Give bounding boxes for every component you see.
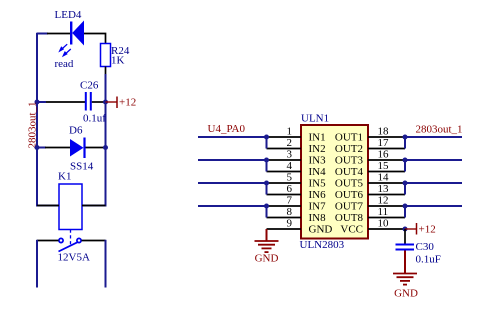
svg-text:1K: 1K: [111, 55, 125, 67]
wire D6 cathode lead: [86, 147, 106, 149]
junction dot pin10: [403, 227, 408, 232]
svg-text:SS14: SS14: [70, 161, 94, 173]
junction dot pin14: [403, 181, 408, 186]
svg-text:15: 15: [378, 160, 390, 172]
pin stub wires right (pins 18-10): [368, 137, 405, 229]
svg-text:18: 18: [378, 126, 390, 138]
wire resistor bottom lead: [105, 67, 107, 76]
pin labels right column: [335, 132, 364, 236]
relay K1 switch contact right: [77, 238, 81, 242]
LED light arrow 1: [58, 44, 67, 52]
junction dot pin18: [403, 135, 408, 140]
wire C26 left lead: [37, 101, 85, 103]
pin labels left column: [309, 132, 333, 236]
svg-text:0.1uf: 0.1uf: [83, 113, 106, 125]
svg-text:IN3: IN3: [309, 155, 327, 167]
svg-text:7: 7: [287, 195, 293, 207]
svg-text:3: 3: [287, 149, 293, 161]
svg-text:1: 1: [287, 126, 293, 138]
wire pin10 stub: [368, 228, 405, 230]
svg-text:5: 5: [287, 172, 293, 184]
junction dot pin1: [264, 135, 269, 140]
junction dot D6 left: [35, 145, 40, 150]
wire pin2 stub: [267, 148, 302, 150]
wire pin10 to C30: [404, 229, 406, 244]
IC ULN1 ULN2803 body: [301, 125, 368, 239]
wire pair 1-2 vertical: [266, 137, 268, 149]
junction dot pin16: [403, 158, 408, 163]
svg-text:+12: +12: [419, 224, 436, 236]
svg-text:read: read: [55, 58, 74, 70]
wire pair 7-8 vertical: [266, 206, 268, 218]
svg-text:OUT3: OUT3: [335, 155, 364, 167]
svg-text:C26: C26: [80, 80, 99, 92]
svg-text:VCC: VCC: [340, 224, 363, 236]
wire right vertical (resistor to coil corner): [82, 74, 106, 206]
wire C26 left stub: [37, 101, 46, 103]
wire pin3 stub: [267, 159, 302, 161]
svg-text:OUT1: OUT1: [335, 132, 363, 144]
power +12 (right): [405, 223, 436, 236]
svg-text:IN6: IN6: [309, 189, 327, 201]
wire LED cathode lead to corner: [84, 34, 106, 45]
output bus wires: [405, 137, 462, 218]
wire input row3: [198, 159, 267, 161]
svg-text:D6: D6: [69, 125, 83, 137]
wire pin16 stub: [368, 159, 405, 161]
svg-text:9: 9: [287, 218, 293, 230]
svg-text:13: 13: [378, 183, 390, 195]
junction dot pin3: [264, 158, 269, 163]
junction dot C26 right: [103, 100, 108, 105]
wire pin4 stub: [267, 171, 302, 173]
LED LED4: [71, 21, 84, 46]
wire pin12 stub: [368, 205, 405, 207]
wire pin1 stub: [267, 136, 302, 138]
svg-text:IN5: IN5: [309, 178, 327, 190]
relay K1 switch lever: [59, 242, 78, 251]
wire pair 12-11 vertical: [404, 206, 406, 218]
svg-text:OUT5: OUT5: [335, 178, 364, 190]
svg-text:+12: +12: [119, 97, 136, 109]
wire pair 5-6 vertical: [266, 183, 268, 195]
pin numbers left: [287, 126, 293, 230]
wire coil right lead: [82, 205, 106, 207]
svg-text:17: 17: [378, 137, 390, 149]
wire bottom-left vertical: [36, 240, 38, 288]
wire pair 14-13 vertical: [404, 183, 406, 195]
wire D6 anode lead: [45, 147, 70, 149]
wire net 2803out_1: [405, 136, 462, 138]
svg-text:0.1uF: 0.1uF: [416, 254, 441, 266]
LED light arrow 2: [62, 49, 71, 57]
svg-text:12: 12: [378, 195, 389, 207]
junction dot C26 left: [35, 100, 40, 105]
input bus wires: [198, 137, 267, 218]
wire pin5 stub: [267, 182, 302, 184]
svg-text:IN4: IN4: [309, 166, 327, 178]
svg-text:8: 8: [287, 206, 293, 218]
wire pair 3-4 vertical: [266, 160, 268, 172]
svg-text:C30: C30: [416, 241, 435, 253]
relay K1 switch contact left: [59, 238, 63, 242]
wire pin9 stub: [267, 228, 302, 230]
wire pin15 stub: [368, 171, 405, 173]
svg-text:IN7: IN7: [309, 201, 327, 213]
relay K1 actuation dashed link: [70, 230, 72, 245]
svg-text:IN2: IN2: [309, 143, 326, 155]
svg-text:2803out_1: 2803out_1: [27, 101, 39, 148]
svg-text:12V5A: 12V5A: [58, 252, 90, 264]
wire pin13 stub: [368, 194, 405, 196]
wire bottom-right vertical: [105, 240, 107, 288]
svg-text:2: 2: [287, 137, 293, 149]
svg-text:16: 16: [378, 149, 390, 161]
diode D6: [70, 138, 85, 159]
wire pin14 stub: [368, 182, 405, 184]
svg-text:2803out_1: 2803out_1: [416, 124, 463, 136]
svg-text:GND: GND: [309, 224, 333, 236]
capacitor C26: [86, 92, 91, 111]
junction dot pin5: [264, 181, 269, 186]
junction dot pin12: [403, 204, 408, 209]
wire C26 right lead: [92, 101, 106, 103]
wire pin11 stub: [368, 217, 405, 219]
wire pin17 stub: [368, 148, 405, 150]
svg-text:ULN1: ULN1: [301, 113, 329, 125]
svg-text:10: 10: [378, 218, 390, 230]
svg-text:OUT6: OUT6: [335, 189, 364, 201]
wire input row5: [198, 182, 267, 184]
svg-text:LED4: LED4: [55, 9, 82, 21]
svg-text:OUT8: OUT8: [335, 212, 364, 224]
svg-text:6: 6: [287, 183, 293, 195]
wire switch right lead: [82, 240, 106, 242]
svg-text:11: 11: [378, 206, 389, 218]
junction dot pin7: [264, 204, 269, 209]
wire pin18 stub: [368, 136, 405, 138]
svg-text:IN1: IN1: [309, 132, 326, 144]
svg-text:ULN2803: ULN2803: [300, 239, 345, 251]
svg-text:GND: GND: [255, 253, 279, 265]
ground symbol (left, pin9): [255, 229, 279, 252]
ground symbol (right, C30): [393, 274, 417, 285]
wire LED anode lead: [47, 33, 71, 35]
capacitor C30: [396, 245, 415, 250]
wire pair 16-15 vertical: [404, 160, 406, 172]
wire pair 18-17 vertical: [404, 137, 406, 149]
svg-text:4: 4: [287, 160, 293, 172]
svg-text:14: 14: [378, 172, 390, 184]
wire pin8 stub: [267, 217, 302, 219]
svg-text:OUT4: OUT4: [335, 166, 364, 178]
pin numbers right: [378, 126, 390, 230]
wire output row16: [405, 159, 462, 161]
svg-text:OUT2: OUT2: [335, 143, 363, 155]
svg-text:OUT7: OUT7: [335, 201, 364, 213]
junction dot D6 right: [103, 145, 108, 150]
wire left vertical (LED corner to coil corner): [37, 33, 59, 206]
wire net U4_PA0: [198, 136, 267, 138]
wire D6 left stub: [37, 147, 46, 149]
resistor R24: [101, 44, 111, 67]
svg-text:IN8: IN8: [309, 212, 327, 224]
wire coil left lead: [37, 205, 59, 207]
svg-text:K1: K1: [58, 171, 71, 183]
svg-text:U4_PA0: U4_PA0: [208, 123, 246, 135]
wire output row14: [405, 182, 462, 184]
svg-text:GND: GND: [394, 288, 418, 300]
wire top-left stub: [37, 33, 48, 35]
wire C30 to ground: [404, 251, 406, 274]
pin stub wires left (pins 1-9): [267, 137, 302, 229]
relay K1 coil: [59, 184, 82, 230]
wire switch left lead: [37, 240, 59, 242]
power +12 (left): [106, 97, 137, 109]
wire pin7 stub: [267, 205, 302, 207]
wire output row12: [405, 205, 462, 207]
wire pin6 stub: [267, 194, 302, 196]
wire input row7: [198, 205, 267, 207]
